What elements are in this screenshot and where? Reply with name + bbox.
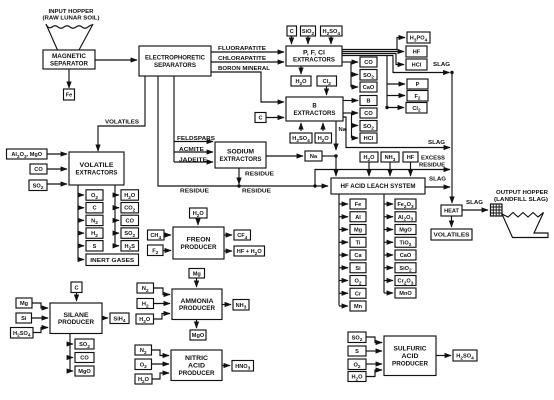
box B extractors (286, 97, 343, 121)
box volatiles output (431, 229, 472, 240)
wire fluorapatite to P F Cl extractors (211, 51, 284, 53)
wire ve rail to SO2 (115, 232, 119, 234)
box MgO output ammonia (190, 330, 206, 340)
junction residue sodium (237, 184, 240, 187)
svg-text:CaO: CaO (363, 85, 375, 91)
svg-text:Mg: Mg (20, 301, 29, 307)
wire ve right rail (114, 185, 116, 245)
svg-text:INERT GASES: INERT GASES (90, 258, 134, 264)
wire H2O into nitric (152, 373, 169, 379)
wire freon to HF H2O (224, 250, 232, 252)
wire nitric to HNO3 (222, 365, 230, 367)
box SiO2 input pfcl (301, 26, 316, 37)
wire leach rail to Ca (339, 254, 348, 256)
wire leach rail to MgO (384, 229, 393, 231)
svg-text:CHLORAPATITE: CHLORAPATITE (218, 56, 266, 62)
wire pfcl slag line (342, 56, 450, 73)
svg-text:CO: CO (364, 111, 373, 117)
box H2O input bext (315, 133, 332, 144)
junction residue excess (313, 184, 316, 187)
svg-text:EXTRACTORS: EXTRACTORS (220, 157, 262, 163)
svg-text:FLUORAPATITE: FLUORAPATITE (218, 46, 266, 52)
box SiH4 output (110, 313, 129, 324)
box N2 input nitric (135, 345, 152, 356)
wire N2 into nitric (152, 350, 170, 356)
box Na product (305, 151, 322, 161)
output hopper shape (502, 213, 548, 238)
wire feldspars to sodium extractors (174, 141, 213, 143)
svg-text:B: B (366, 99, 370, 105)
svg-text:C: C (290, 29, 294, 35)
svg-text:MgO: MgO (78, 369, 91, 375)
wire magnetic separator to electrophoretic separators (95, 59, 137, 61)
wire rail to Cl2 (387, 107, 404, 109)
wire N2 into ammonia (154, 288, 171, 295)
svg-text:C: C (258, 116, 262, 122)
svg-text:ACID: ACID (402, 354, 420, 360)
box Ca output leach (350, 250, 366, 260)
wire pfcl to H3PO4 (342, 38, 405, 50)
wire H2O into bext (322, 123, 324, 131)
box nitric acid producer (171, 350, 222, 381)
box P output (407, 79, 428, 89)
box Al2O3 output leach (395, 212, 416, 223)
box Mg input ammonia (189, 269, 205, 279)
box H2O input nitric (135, 374, 152, 385)
wire rail to HCl bext (352, 137, 359, 139)
svg-text:BORON MINERAL: BORON MINERAL (218, 66, 270, 72)
svg-text:RESIDUE: RESIDUE (419, 163, 445, 169)
wire Cl2 into B extractors (326, 86, 328, 95)
svg-text:Mg: Mg (354, 228, 363, 234)
svg-text:Al: Al (355, 215, 361, 221)
box SO2 output bext (360, 121, 377, 132)
wire leach rail to TiO2 (384, 241, 393, 243)
wire C into pfcl (291, 36, 293, 44)
box C input silane (71, 282, 82, 293)
box NH3 output (233, 300, 249, 311)
wire SiO2 into pfcl (307, 36, 309, 44)
wire leach rail to MnO (384, 292, 393, 294)
wire freon to CF4 (224, 234, 232, 236)
svg-text:P, F, Cl: P, F, Cl (303, 51, 325, 57)
wire leach right rail (383, 194, 385, 293)
wire H2SO4 into bext (300, 123, 302, 131)
svg-text:Na: Na (310, 154, 318, 160)
box H2O output pfcl (291, 76, 311, 87)
box Si input silane (16, 313, 32, 323)
svg-text:NITRIC: NITRIC (185, 356, 209, 362)
box N2 input ammonia (137, 283, 154, 294)
svg-text:(LANDFILL SLAG): (LANDFILL SLAG) (494, 197, 548, 203)
svg-text:FREON: FREON (187, 238, 211, 244)
svg-text:PRODUCER: PRODUCER (58, 320, 95, 326)
wire ve rail to C (78, 207, 84, 209)
box C input pfcl (287, 26, 297, 36)
wire jadeite to sodium extractors (174, 161, 213, 163)
box CaO output leach (395, 250, 416, 260)
svg-text:Ca: Ca (354, 253, 362, 259)
wire P F2 Cl2 rail (386, 56, 388, 108)
wire bext to CO (343, 112, 358, 114)
wire F2 into freon (163, 250, 171, 252)
wire heat to hopper (462, 209, 488, 211)
wire ve rail to S (78, 245, 84, 247)
box sodium extractors (215, 142, 266, 168)
wire Na from bext down (335, 121, 337, 150)
wire leach rail to Al2O3 (384, 216, 393, 218)
svg-text:C: C (74, 285, 78, 291)
box inert gases (86, 254, 139, 266)
box SO2 output ve (121, 228, 139, 239)
wire ve rail to H2 (78, 232, 84, 234)
svg-text:(RAW LUNAR SOIL): (RAW LUNAR SOIL) (43, 16, 100, 22)
box silane producer (50, 303, 102, 334)
wire O2 into nitric (152, 363, 170, 365)
wire C into silane (76, 293, 78, 302)
box H2S output ve (121, 241, 139, 252)
svg-text:HF: HF (407, 155, 415, 161)
wire ve left rail (78, 185, 84, 260)
wire pfcl CO rail down (350, 62, 352, 87)
wire feldspars rail down (173, 76, 175, 162)
svg-text:PRODUCER: PRODUCER (392, 361, 429, 367)
wire sulfuric to H2SO4 (436, 355, 451, 357)
wire H2 into ammonia (154, 303, 171, 305)
svg-text:JADEITE: JADEITE (179, 158, 207, 164)
wire rail to MgO silane (70, 370, 73, 372)
box O2 output leach (350, 276, 366, 287)
svg-text:PRODUCER: PRODUCER (181, 245, 218, 251)
box magnetic separator (43, 50, 95, 69)
wire SO2 into sulfuric (366, 337, 382, 343)
wire ve rail to H2O (115, 194, 119, 196)
wire Na to junction (322, 155, 336, 157)
svg-text:SLAG: SLAG (429, 177, 447, 183)
wire leach rail to O2 (339, 280, 348, 282)
box C input bext (255, 113, 266, 123)
box HF output (406, 46, 427, 57)
svg-text:SULFURIC: SULFURIC (394, 347, 428, 353)
box HCl output bext (360, 133, 377, 143)
svg-text:CO: CO (80, 356, 89, 362)
box HNO3 output (232, 361, 254, 372)
wire Mg into silane (32, 303, 48, 308)
wire rail to SO2 silane (70, 343, 73, 345)
wire ammonia to NH3 (222, 304, 231, 306)
box O2 output ve (86, 190, 103, 201)
box Cr2O3 output leach (395, 276, 416, 287)
svg-text:C: C (92, 206, 96, 212)
svg-text:MgO: MgO (192, 333, 205, 339)
box CO output ve (121, 215, 139, 225)
box Si output leach (350, 263, 366, 273)
wire rail to CaO (351, 86, 358, 88)
wire leach rail to Cr2O3 (384, 280, 393, 282)
wire heat to volatiles (451, 216, 453, 227)
wire Si into silane (32, 317, 49, 319)
wire leach rail to Ti (339, 241, 348, 243)
wire sodium extractors residue down (238, 168, 240, 184)
wire Al2O3 into ve (47, 153, 67, 155)
wire chlorapatite to P F Cl extractors (211, 61, 284, 63)
box Cr output leach (350, 288, 366, 298)
box CH4 input freon (148, 230, 165, 241)
svg-text:HCl: HCl (412, 63, 422, 69)
wire rail to SO2 (351, 74, 358, 76)
svg-text:Mn: Mn (354, 304, 363, 310)
wire rail to CO silane (70, 357, 73, 359)
junction Cl2 corner (385, 106, 388, 109)
box sulfuric acid producer (384, 336, 436, 376)
wire H2O into freon (197, 218, 199, 225)
box Fe output leach (350, 199, 366, 209)
svg-text:VOLATILES: VOLATILES (105, 120, 139, 126)
box freon producer (173, 227, 224, 259)
wire H2O into sulfuric (366, 370, 382, 377)
svg-text:EXCESS: EXCESS (421, 156, 445, 162)
wire ve rail to H2S (115, 245, 119, 247)
box P F Cl extractors (286, 46, 342, 66)
box TiO2 output leach (395, 237, 416, 248)
wire acmite to sodium extractors (174, 151, 213, 153)
svg-text:VOLATILE: VOLATILE (80, 163, 114, 169)
wire residue rail from separators to HF acid leach system (158, 76, 328, 186)
wire silane bottom rail (69, 334, 71, 372)
wire ve rail to CO (115, 219, 119, 221)
svg-text:ELECTROPHORETIC: ELECTROPHORETIC (145, 56, 206, 62)
box CO output silane (75, 353, 94, 363)
svg-text:MgO: MgO (399, 228, 412, 234)
input hopper funnel (46, 24, 93, 50)
svg-text:RESIDUE: RESIDUE (245, 172, 274, 178)
box H2SO4 input silane (11, 328, 34, 339)
box SO2 input sulfuric (348, 332, 366, 343)
wire slag main vertical to heat (451, 73, 453, 204)
svg-text:Si: Si (21, 316, 27, 322)
box S output ve (86, 241, 103, 251)
box B output (360, 96, 377, 106)
wire leach rail to Cr (339, 292, 348, 294)
svg-text:S: S (93, 244, 97, 250)
box CO2 output ve (121, 203, 139, 214)
svg-text:MnO: MnO (399, 291, 412, 297)
box F2 output (407, 91, 428, 102)
svg-text:SLAG: SLAG (433, 62, 451, 68)
box H2 input ammonia (137, 299, 154, 310)
wire leach rail to SiO2 (384, 267, 393, 269)
box Cl2 input bext (317, 76, 337, 87)
wire magnetic separator to Fe (68, 69, 70, 88)
wire pfcl to H2O below (300, 66, 302, 74)
svg-text:Fe: Fe (66, 93, 73, 99)
box Al2O3 MgO input (7, 149, 48, 160)
wire NH3 into leach (389, 162, 391, 176)
box H2SO4 input bext (290, 133, 312, 144)
svg-text:SEPARATORS: SEPARATORS (154, 63, 196, 69)
svg-text:CO: CO (34, 167, 43, 173)
svg-text:CO: CO (364, 60, 373, 66)
box Fe output (64, 89, 75, 100)
box H2O output ve (121, 190, 139, 201)
wire pfcl to HCl (342, 54, 404, 65)
wire HF into leach (410, 162, 412, 176)
wire CH4 into freon (164, 234, 171, 236)
box heat (441, 205, 462, 216)
svg-text:Si: Si (355, 266, 361, 272)
box H3PO4 output (407, 32, 430, 43)
box CF4 output (234, 230, 251, 241)
svg-text:S: S (355, 349, 359, 355)
svg-text:AMMONIA: AMMONIA (181, 299, 215, 305)
hatched screen box (491, 204, 503, 216)
wire rail to P (387, 83, 405, 85)
svg-text:Na: Na (339, 127, 347, 133)
box O2 input sulfuric (348, 359, 366, 370)
svg-text:EXTRACTORS: EXTRACTORS (294, 111, 336, 117)
box MgO output leach (395, 225, 416, 235)
box MgO output silane (75, 366, 94, 376)
wire leach rail to CaO (384, 254, 393, 256)
box electrophoretic separators (139, 46, 211, 76)
wire rail to F2 (387, 95, 405, 97)
svg-text:RESIDUE: RESIDUE (242, 189, 271, 195)
box H2SO4 output sulfuric (453, 350, 477, 361)
svg-text:INPUT HOPPER: INPUT HOPPER (49, 9, 95, 15)
box HF acid leach system (331, 178, 425, 194)
box CaO output pfcl (360, 82, 377, 92)
svg-text:VOLATILES: VOLATILES (434, 233, 470, 239)
wire H2O into ammonia (154, 314, 171, 320)
wire SO2 into ve (47, 183, 67, 185)
wire leach rail to Fe2O3 (384, 203, 393, 205)
box SO2 input ve (29, 180, 47, 191)
wire CO into ve (47, 168, 67, 170)
box H2O input sulfuric (348, 372, 366, 383)
svg-text:B: B (312, 104, 317, 110)
svg-text:ACID: ACID (188, 363, 206, 369)
box MnO output leach (395, 288, 416, 298)
wire Na junction into HF leach (335, 156, 337, 176)
svg-text:HF: HF (413, 50, 421, 56)
svg-text:SODIUM: SODIUM (227, 150, 254, 156)
box CO output pfcl (360, 57, 377, 67)
junction Na (334, 154, 337, 157)
wire leach rail to Fe (339, 203, 348, 205)
svg-text:P: P (416, 82, 420, 88)
wire bext slag line (343, 117, 450, 148)
svg-text:CaO: CaO (400, 253, 412, 259)
wire ve rail to CO2 (115, 207, 119, 209)
wire S into sulfuric (366, 350, 382, 352)
wire C into B extractors (266, 117, 284, 119)
svg-text:Fe: Fe (355, 202, 362, 208)
box SO2 output silane (75, 339, 94, 350)
box S input sulfuric (348, 346, 366, 356)
wire bext CO rail down (351, 113, 353, 138)
wire ve rail to N2 (78, 219, 84, 221)
svg-text:EXTRACTORS: EXTRACTORS (293, 58, 335, 64)
box Mn output leach (350, 301, 366, 311)
svg-text:CO: CO (126, 218, 135, 224)
box NH3 input leach (381, 152, 399, 163)
box SO2 output pfcl (360, 70, 377, 81)
junction slag corner (450, 71, 453, 74)
box N2 output ve (86, 215, 103, 226)
wire pfcl to CO (342, 61, 358, 63)
wire silane to SiH4 (102, 317, 108, 319)
svg-text:MAGNETIC: MAGNETIC (52, 54, 87, 60)
box F2 input freon (148, 245, 164, 256)
wire bext to B (343, 100, 358, 102)
svg-text:EXTRACTORS: EXTRACTORS (76, 170, 118, 176)
wire volatiles from separators to volatile extractors (98, 76, 145, 151)
wire pfcl to HF (342, 51, 404, 53)
svg-text:HEAT: HEAT (444, 209, 459, 215)
svg-text:PRODUCER: PRODUCER (179, 306, 216, 312)
box H2O input freon (190, 208, 208, 219)
box HF H2O output (234, 246, 265, 257)
svg-text:SEPARATOR: SEPARATOR (50, 61, 89, 67)
wire ve rail to O2 (78, 194, 84, 196)
box volatile extractors (69, 152, 124, 185)
box HCl output (406, 59, 427, 70)
box H2O input ammonia (136, 314, 154, 325)
box SiO2 output leach (395, 263, 416, 274)
svg-text:Cr: Cr (355, 291, 362, 297)
wire H2O into leach (368, 162, 370, 176)
box ammonia producer (172, 289, 222, 320)
wire leach rail to Al (339, 216, 348, 218)
box Cl2 output (406, 103, 427, 114)
box Al output leach (350, 212, 366, 222)
box H2O input leach (360, 152, 378, 163)
box CO output bext (360, 108, 377, 118)
box Mg input silane (16, 298, 32, 308)
box O2 input nitric (135, 359, 152, 370)
svg-text:OUTPUT HOPPER: OUTPUT HOPPER (496, 190, 549, 196)
svg-text:HCl: HCl (364, 136, 374, 142)
wire O2 into sulfuric (366, 363, 382, 365)
box H2 output ve (86, 228, 103, 239)
box Ti output leach (350, 237, 366, 247)
wire Mg into ammonia (196, 278, 198, 287)
wire ammonia to MgO (196, 320, 198, 329)
svg-text:HF ACID LEACH SYSTEM: HF ACID LEACH SYSTEM (341, 184, 416, 190)
svg-text:PRODUCER: PRODUCER (179, 371, 216, 377)
wire H2SO4 into pfcl (330, 36, 332, 44)
wire excess residue loop (315, 170, 450, 187)
box Fe2O3 output leach (395, 199, 416, 210)
wire hf leach slag (425, 186, 450, 188)
svg-text:Ti: Ti (356, 240, 361, 246)
box CO input ve (30, 164, 47, 174)
wire leach rail to Si (339, 267, 348, 269)
wire H2SO4 into silane (33, 328, 48, 333)
svg-text:SLAG: SLAG (466, 200, 484, 206)
box Mg output leach (350, 225, 366, 235)
wire rail to SO2 bext (352, 125, 359, 127)
box C output ve (86, 203, 103, 213)
wire leach rail to Mn (339, 305, 348, 307)
svg-text:RESIDUE: RESIDUE (180, 189, 209, 195)
svg-text:SLAG: SLAG (428, 140, 446, 146)
wire sodium extractors to Na (266, 155, 303, 157)
svg-text:SILANE: SILANE (64, 313, 89, 319)
box H2SO4 input pfcl (321, 26, 343, 37)
wire boron mineral to B extractors (211, 72, 284, 102)
wire leach rail to Mg (339, 229, 348, 231)
